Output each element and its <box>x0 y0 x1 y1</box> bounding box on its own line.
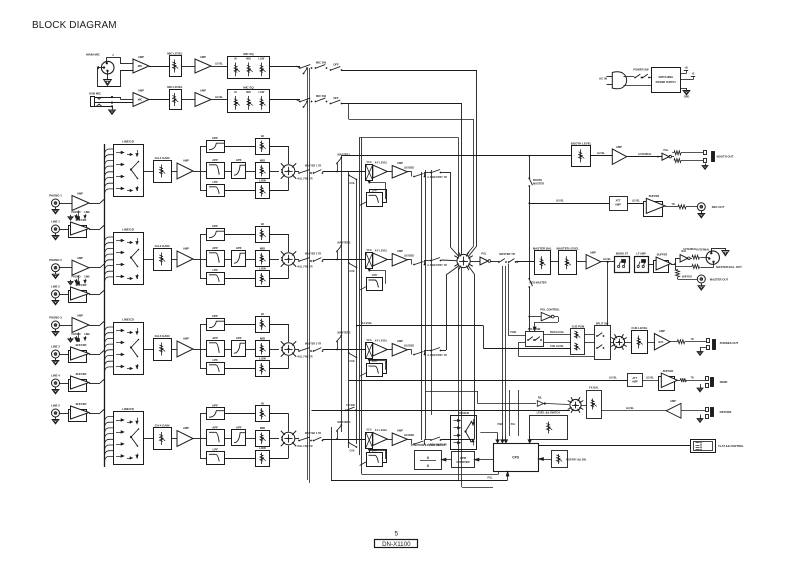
svg-text:RETURN: RETURN <box>720 410 732 414</box>
svg-text:AMP: AMP <box>590 251 596 255</box>
svg-text:FX SW: FX SW <box>346 403 355 407</box>
svg-text:PGL: PGL <box>481 252 487 256</box>
wire split aux out <box>519 342 595 356</box>
svg-text:LPF: LPF <box>372 188 378 192</box>
svg-text:PGM LEVEL: PGM LEVEL <box>550 331 565 334</box>
block ATT AMP rec <box>610 197 628 211</box>
wire <box>60 229 69 231</box>
pot MIC LEVEL <box>167 85 183 110</box>
wire sum node feeds <box>459 267 462 487</box>
svg-text:OFF: OFF <box>333 96 339 100</box>
svg-text:MASTER 2 TR: MASTER 2 TR <box>305 253 322 256</box>
wire <box>171 259 177 261</box>
svg-text:PGM: PGM <box>510 331 516 334</box>
wire fx bus <box>312 410 570 412</box>
svg-text:GND: GND <box>684 96 690 99</box>
wire <box>89 225 105 230</box>
svg-text:MASTER 1 TR: MASTER 1 TR <box>305 165 322 168</box>
svg-text:VCA: VCA <box>366 429 371 432</box>
pot MASTER BAL <box>533 247 552 275</box>
wire <box>601 258 615 262</box>
svg-text:POWER SW: POWER SW <box>633 68 649 72</box>
wire <box>625 342 632 344</box>
wire <box>404 255 415 265</box>
svg-text:KILL FNC TR: KILL FNC TR <box>297 266 312 269</box>
svg-text:LOW: LOW <box>259 58 265 61</box>
switch CH4 transform <box>413 440 425 445</box>
svg-text:HI: HI <box>261 312 264 316</box>
svg-text:AMP: AMP <box>632 380 638 384</box>
filter BPF CH4 <box>207 425 225 445</box>
svg-text:AMP: AMP <box>615 203 621 207</box>
amp line buffer LINE1 <box>69 218 90 238</box>
filter APF CH3 <box>232 336 246 357</box>
svg-text:HI: HI <box>234 58 237 61</box>
svg-text:TR: TR <box>690 338 693 341</box>
svg-text:+B: +B <box>684 66 687 70</box>
svg-text:LPF: LPF <box>372 273 378 277</box>
wire <box>387 349 392 351</box>
svg-text:MID: MID <box>246 91 251 94</box>
svg-text:MASTER 3 TR: MASTER 3 TR <box>305 343 322 346</box>
pot EQ HI CH2 <box>256 222 270 243</box>
svg-text:RED MASTER: RED MASTER <box>530 281 547 285</box>
pot CH-1 GAIN <box>154 156 172 183</box>
wire crossfader bus verticals <box>360 138 362 455</box>
wire mic cue bus verticals <box>308 68 310 483</box>
wire <box>270 99 300 101</box>
svg-text:ATT: ATT <box>632 376 637 380</box>
wire <box>181 66 195 68</box>
svg-text:PHONO 2: PHONO 2 <box>49 258 62 262</box>
switch CH1 trim <box>305 165 324 174</box>
switch MIC ON/OFF <box>296 65 312 69</box>
switch CH2 trim <box>305 253 324 262</box>
wire <box>224 235 255 279</box>
svg-text:LINE/CD: LINE/CD <box>122 140 134 144</box>
switch CH2 transform <box>413 260 425 265</box>
svg-text:HI: HI <box>261 222 264 226</box>
amp mic 2nd stage <box>195 55 211 73</box>
svg-text:A-PGM POST TR: A-PGM POST TR <box>427 264 447 267</box>
amp booth driver <box>662 149 672 160</box>
svg-text:LPF: LPF <box>212 447 218 451</box>
switch PHONO/LINE select PHONO3 <box>68 333 90 343</box>
svg-text:LPF: LPF <box>212 358 218 362</box>
wire eq to sum <box>270 146 289 191</box>
selector SW4 LINE/CD input select CH4 <box>114 407 144 465</box>
wire <box>404 434 415 444</box>
svg-text:AMP: AMP <box>183 426 189 430</box>
svg-text:KILL FNC TR: KILL FNC TR <box>297 178 312 181</box>
amp A1 mic head amp <box>133 55 149 73</box>
svg-text:LINE: LINE <box>84 276 90 279</box>
svg-text:MASTER 2: MASTER 2 <box>338 241 352 245</box>
switch BOOTH MASTER select <box>528 156 544 204</box>
connector BOOTH OUT jack <box>681 151 734 163</box>
svg-text:BUFFER: BUFFER <box>76 218 87 222</box>
wire crossfader to cpu bottom <box>362 455 499 475</box>
wire <box>387 259 392 261</box>
wire <box>516 261 535 263</box>
vca CH1 crossfader VCA <box>366 161 373 181</box>
svg-text:LOW: LOW <box>259 178 266 182</box>
svg-text:HPF: HPF <box>212 224 218 228</box>
amp CH3 booster <box>392 339 407 356</box>
wire selector fan-in <box>105 237 114 281</box>
connector LINE5 RCA input <box>51 404 60 418</box>
wire <box>60 413 69 415</box>
pot EQ LOW CH1 <box>256 178 270 198</box>
svg-text:AMP: AMP <box>397 249 403 253</box>
switch POWER SW <box>633 68 651 79</box>
amp CH1 post fader <box>373 162 388 179</box>
svg-text:8: 8 <box>427 456 429 460</box>
pot EQ MID CH2 <box>256 246 270 266</box>
svg-text:LOADED: LOADED <box>404 167 415 170</box>
ground MASTER OUT <box>698 283 705 290</box>
svg-text:EXTERNAL: EXTERNAL <box>638 153 652 156</box>
svg-text:LINE 4: LINE 4 <box>51 374 60 378</box>
pot CUE LEVEL <box>631 326 648 353</box>
switch CH4 cue <box>348 439 357 453</box>
pot CUE PGM <box>571 325 586 355</box>
ground BOOTH OUT <box>702 164 708 170</box>
switch mic cue feed <box>303 67 308 74</box>
svg-text:PHONES OUT: PHONES OUT <box>720 341 739 345</box>
ground for MAIN MIC <box>104 71 112 86</box>
switch CH4 trim <box>305 432 324 441</box>
filter LPF CH4 post <box>360 448 387 467</box>
connector LINE4 RCA input <box>51 374 60 388</box>
amp CH1 booster <box>392 161 407 178</box>
svg-text:AMP: AMP <box>397 339 403 343</box>
svg-text:BOOTH: BOOTH <box>533 178 542 182</box>
svg-text:AC IN: AC IN <box>599 77 607 81</box>
svg-text:OFF: OFF <box>333 62 339 66</box>
wire <box>627 153 662 158</box>
switch CH2 kill <box>297 258 312 269</box>
wire <box>627 200 644 204</box>
wire <box>60 267 73 269</box>
amp CH4 booster <box>392 429 407 446</box>
svg-text:CUE LEVEL: CUE LEVEL <box>550 345 564 348</box>
switch MIC TALKOVER <box>315 94 328 103</box>
wire cue bus to cpu <box>462 471 494 487</box>
wire cpu to flat cable <box>538 445 690 447</box>
wire <box>60 354 69 356</box>
wire <box>89 350 105 355</box>
wire <box>60 383 69 385</box>
wire <box>171 438 177 440</box>
summing node master PGM sum <box>454 252 472 270</box>
svg-text:AMP: AMP <box>138 55 144 59</box>
svg-text:LF AMP: LF AMP <box>636 252 646 256</box>
amp phono head amp PHONO2 <box>72 256 89 275</box>
connector MASTER BAL OUT XLR <box>696 248 742 269</box>
switch crossfader assign <box>451 411 477 450</box>
svg-text:X-F LEVEL: X-F LEVEL <box>375 250 388 253</box>
amp CH1 gain amp <box>177 159 193 180</box>
pot FX level <box>581 386 601 419</box>
svg-text:BUFFER: BUFFER <box>649 194 660 198</box>
svg-text:BUFFER: BUFFER <box>682 275 692 278</box>
pot EQ LOW CH3 <box>256 356 270 376</box>
block BPM COUNTER <box>452 452 475 468</box>
svg-text:AMP: AMP <box>138 89 144 93</box>
pot CH-3 GAIN <box>154 334 172 361</box>
svg-text:CUE: CUE <box>349 182 355 185</box>
wire to filter bank <box>193 234 207 279</box>
wire <box>89 321 105 326</box>
resistor booth cold <box>674 159 681 163</box>
filter BPF CH1 <box>207 158 225 179</box>
resistor rec out <box>665 203 697 209</box>
svg-text:MASTER: MASTER <box>533 182 544 186</box>
svg-text:X-F LEVEL: X-F LEVEL <box>375 162 388 165</box>
svg-text:PHONO 1: PHONO 1 <box>49 194 62 198</box>
wire master to pgl control <box>528 316 541 318</box>
svg-text:APF: APF <box>236 425 242 429</box>
switch SPLIT SW <box>526 327 544 347</box>
svg-text:AMP: AMP <box>397 161 403 165</box>
switch CH2 fx send <box>425 258 447 268</box>
switch MIC TALKOVER <box>315 60 328 69</box>
connector PHONES OUT jack <box>700 339 739 350</box>
filter LPF CH2 <box>207 268 225 285</box>
wire meter link <box>441 458 451 461</box>
svg-text:AMP: AMP <box>670 399 676 403</box>
connector RETURN jack <box>706 408 732 419</box>
svg-text:X-F LEVEL: X-F LEVEL <box>375 429 388 432</box>
pot EQ LOW CH2 <box>256 266 270 286</box>
svg-text:BOOTH OUT: BOOTH OUT <box>717 155 734 159</box>
svg-text:SWITCHING: SWITCHING <box>658 75 673 79</box>
svg-text:EXTERNAL: EXTERNAL <box>696 248 710 251</box>
svg-text:LPF: LPF <box>212 268 218 272</box>
svg-text:X-F LEVEL: X-F LEVEL <box>375 340 388 343</box>
connector REC OUT RCA <box>697 203 724 211</box>
svg-text:VCA: VCA <box>366 339 371 342</box>
amp PGM buffer <box>470 252 490 266</box>
filter HPF CH2 <box>207 224 225 241</box>
ground REC OUT <box>698 211 705 218</box>
svg-text:MASTER BAL: MASTER BAL <box>533 247 552 251</box>
power supply unit U10 SWITCHING POWER SUPPLY <box>652 68 681 93</box>
ground for LINE5 <box>52 417 59 424</box>
amp master amp <box>586 251 601 270</box>
svg-text:APF: APF <box>212 336 218 340</box>
selector SW1 LINE/CD input select CH1 <box>114 140 144 197</box>
summing node CH2 EQ sum <box>281 251 296 266</box>
amp line buffer LINE2 <box>69 283 90 303</box>
ground power supply <box>681 88 690 99</box>
wire booth assign bus <box>341 156 343 432</box>
svg-text:LEVEL: LEVEL <box>597 152 605 155</box>
resistor to master out <box>676 269 698 280</box>
power rail +B <box>681 66 689 74</box>
wire cpu to rotary <box>538 458 551 461</box>
svg-text:BUFFER: BUFFER <box>657 253 668 257</box>
svg-text:LOW: LOW <box>259 266 266 270</box>
svg-text:LINE 5: LINE 5 <box>51 404 60 408</box>
switch master insert <box>491 252 517 263</box>
switch MIC ON/OFF <box>296 98 312 102</box>
svg-text:MIC EQ: MIC EQ <box>243 52 254 56</box>
wire <box>224 414 255 459</box>
wire <box>89 290 105 295</box>
svg-text:PHONO: PHONO <box>72 211 81 214</box>
svg-text:AMP: AMP <box>200 55 206 59</box>
svg-text:LPF: LPF <box>372 448 378 452</box>
resistor send <box>677 376 705 382</box>
svg-text:PHONO: PHONO <box>72 276 81 279</box>
svg-text:PGL: PGL <box>487 477 493 480</box>
filter LPF CH4 <box>207 447 225 464</box>
svg-text:TR: TR <box>671 203 674 206</box>
svg-text:CUE PGM: CUE PGM <box>572 325 585 329</box>
amp line buffer LINE3 <box>69 343 90 363</box>
svg-text:SPLIT SW: SPLIT SW <box>596 322 609 326</box>
summing node CH1 EQ sum <box>281 163 296 178</box>
connector PHONO1 RCA input <box>49 194 62 208</box>
svg-text:AMP: AMP <box>183 159 189 163</box>
svg-text:CUE LEVEL: CUE LEVEL <box>631 326 648 330</box>
svg-text:AMP: AMP <box>77 256 83 260</box>
ground for LINE1 <box>52 233 59 240</box>
svg-text:MASTER 4 TR: MASTER 4 TR <box>305 432 322 435</box>
wire eq to sum <box>270 234 289 279</box>
svg-text:8: 8 <box>427 464 429 468</box>
wire eq to sum <box>270 414 289 459</box>
wire <box>143 259 153 261</box>
vca CH3 crossfader VCA <box>366 339 373 359</box>
switch PHONO/LINE select PHONO2 <box>68 275 90 285</box>
switch MIC assign OFF <box>330 62 343 71</box>
filter LPF CH3 post <box>360 359 387 377</box>
svg-text:HI: HI <box>261 134 264 138</box>
svg-text:A-PGM POST TR: A-PGM POST TR <box>427 354 447 357</box>
svg-text:AMP: AMP <box>77 314 83 318</box>
wire <box>550 261 558 263</box>
amp CH3 post fader <box>373 340 388 357</box>
wire send bus <box>349 377 628 381</box>
svg-text:MASTER 3: MASTER 3 <box>338 331 352 335</box>
svg-text:X-LEVEL: X-LEVEL <box>362 322 373 325</box>
wire <box>89 199 105 204</box>
svg-text:MASTER 4: MASTER 4 <box>338 420 352 424</box>
svg-text:BUFFER: BUFFER <box>76 283 87 287</box>
wire <box>60 203 73 205</box>
svg-text:SPLIT SW: SPLIT SW <box>528 327 541 331</box>
wire mic2 bus to master sum <box>342 104 462 255</box>
svg-text:LOADED: LOADED <box>404 345 415 348</box>
wire <box>89 409 105 414</box>
switch CH3 cue <box>348 350 357 364</box>
switch CH3 trim <box>305 343 324 352</box>
wire <box>149 99 169 101</box>
svg-text:ATT: ATT <box>616 199 621 203</box>
wire <box>60 325 73 327</box>
wire <box>323 439 366 441</box>
ground for LINE2 <box>52 298 59 305</box>
svg-text:MIC EQ: MIC EQ <box>243 85 254 89</box>
svg-text:LINE/CD: LINE/CD <box>122 228 134 232</box>
svg-text:MID: MID <box>246 58 251 61</box>
connector LINE3 RCA input <box>51 345 60 359</box>
svg-text:AMP: AMP <box>77 192 83 196</box>
wire selector fan-in <box>105 417 114 461</box>
wire input bus vertical <box>104 144 106 467</box>
svg-text:LEVEL: LEVEL <box>603 258 611 261</box>
summing node phones <box>611 334 627 350</box>
wire cue bus to headphone section <box>356 322 571 349</box>
switch CH4 kill <box>297 437 312 448</box>
svg-text:MASTER LEVEL: MASTER LEVEL <box>556 247 579 251</box>
svg-text:LOADED: LOADED <box>404 434 415 437</box>
svg-text:MASTER OUT: MASTER OUT <box>710 277 729 281</box>
svg-text:LEVEL: LEVEL <box>646 377 654 380</box>
wire <box>181 99 195 101</box>
svg-text:LINE 1: LINE 1 <box>51 220 60 224</box>
svg-text:LEVEL && SWITCH: LEVEL && SWITCH <box>537 411 561 415</box>
switch CH3 transform <box>413 350 425 355</box>
svg-text:SEND: SEND <box>720 380 728 384</box>
svg-text:MIC: MIC <box>138 99 143 102</box>
amp CH2 booster <box>392 249 407 266</box>
wire <box>60 294 69 296</box>
switch mic cue feed <box>303 101 308 108</box>
svg-text:APF: APF <box>212 158 218 162</box>
svg-text:5: 5 <box>394 531 398 538</box>
vca CH2 crossfader VCA <box>366 249 373 269</box>
wire <box>171 349 177 351</box>
ground phones <box>697 347 703 355</box>
wire cue bus verticals <box>349 175 357 448</box>
ground send <box>697 384 703 392</box>
svg-text:BUFFER: BUFFER <box>663 369 674 373</box>
connector SEND jack <box>706 377 728 388</box>
wire <box>143 438 153 440</box>
svg-text:MASTER BAL. OUT: MASTER BAL. OUT <box>716 265 742 269</box>
pot EQ MID CH4 <box>256 426 270 447</box>
resistor R balanced hot <box>690 255 699 259</box>
wire <box>224 147 255 191</box>
wire <box>387 439 392 441</box>
svg-text:CUE: CUE <box>349 360 355 363</box>
power rail -B <box>681 72 696 80</box>
amp line buffer LINE5 <box>69 402 90 422</box>
cpu U20 <box>494 444 539 472</box>
svg-text:HI: HI <box>261 401 264 405</box>
filter LPF CH3 <box>207 358 225 375</box>
svg-text:REC OUT: REC OUT <box>712 205 725 209</box>
amp return amp <box>666 399 681 418</box>
svg-text:LINE: LINE <box>84 211 90 214</box>
svg-text:CUE: CUE <box>349 450 355 453</box>
wire <box>681 410 705 412</box>
wire <box>89 264 105 268</box>
svg-text:AMP: AMP <box>183 337 189 341</box>
switch CH1 transform <box>413 172 425 177</box>
svg-text:CH-4 GAIN: CH-4 GAIN <box>155 423 170 427</box>
wire split to outputs <box>671 258 680 270</box>
wire cpu inputs top <box>496 436 531 443</box>
amp line buffer LINE4 <box>69 372 90 392</box>
pot CH-2 GAIN <box>154 244 172 271</box>
wire <box>295 171 299 173</box>
amp mic 2nd stage <box>195 89 211 107</box>
